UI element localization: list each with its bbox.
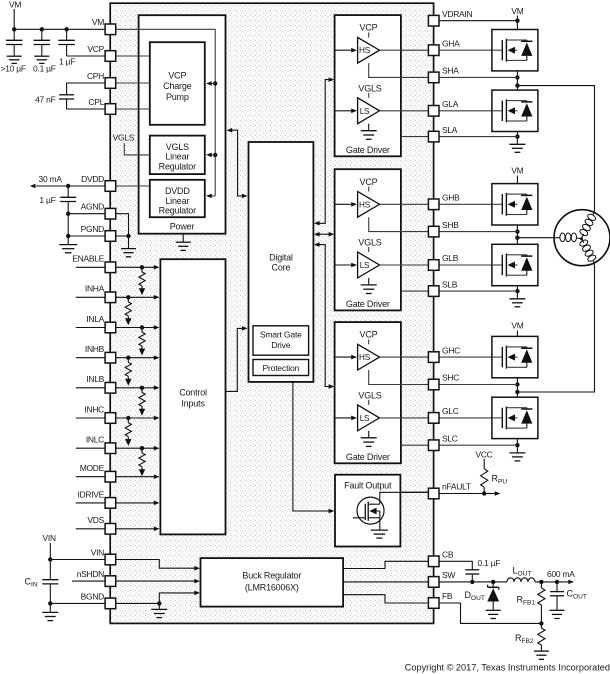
svg-text:0.1 µF: 0.1 µF — [33, 63, 56, 73]
svg-text:INHC: INHC — [84, 404, 104, 414]
svg-text:GHC: GHC — [442, 345, 460, 355]
svg-text:(LMR16006X): (LMR16006X) — [245, 582, 299, 592]
svg-text:0.1 µF: 0.1 µF — [478, 558, 501, 568]
svg-text:VM: VM — [92, 17, 104, 27]
svg-text:Control: Control — [179, 388, 207, 398]
svg-text:VIN: VIN — [91, 547, 104, 557]
svg-text:VCP: VCP — [168, 70, 186, 80]
svg-text:ENABLE: ENABLE — [72, 254, 104, 264]
svg-text:VCP: VCP — [360, 177, 378, 187]
svg-text:INLA: INLA — [86, 314, 104, 324]
svg-text:HS: HS — [359, 46, 371, 55]
svg-text:Inputs: Inputs — [181, 398, 205, 408]
svg-text:Charge: Charge — [163, 81, 192, 91]
svg-text:VGLS: VGLS — [166, 142, 189, 152]
svg-text:IDRIVE: IDRIVE — [77, 489, 104, 499]
svg-text:Linear: Linear — [165, 196, 189, 206]
svg-text:Gate Driver: Gate Driver — [346, 145, 390, 155]
svg-text:Digital: Digital — [269, 252, 293, 262]
svg-text:VGLS: VGLS — [358, 390, 381, 400]
svg-text:Linear: Linear — [165, 152, 189, 162]
svg-text:PGND: PGND — [81, 224, 105, 234]
svg-text:600 mA: 600 mA — [547, 569, 575, 579]
svg-text:HS: HS — [359, 353, 371, 362]
svg-text:Fault Output: Fault Output — [344, 481, 392, 491]
svg-text:CPL: CPL — [88, 97, 104, 107]
svg-text:VDRAIN: VDRAIN — [442, 9, 472, 19]
svg-text:VCP: VCP — [360, 330, 378, 340]
svg-text:VM: VM — [511, 166, 523, 176]
svg-text:Power: Power — [170, 222, 195, 232]
svg-text:1 µF: 1 µF — [39, 195, 55, 205]
svg-text:Regulator: Regulator — [159, 206, 196, 216]
svg-text:VCP: VCP — [87, 44, 104, 54]
svg-text:Gate Driver: Gate Driver — [346, 299, 390, 309]
svg-text:Gate Driver: Gate Driver — [346, 452, 390, 462]
svg-text:Pump: Pump — [166, 92, 189, 102]
svg-text:Buck Regulator: Buck Regulator — [242, 571, 301, 581]
svg-text:SHB: SHB — [442, 220, 459, 230]
svg-text:CPH: CPH — [87, 71, 104, 81]
svg-text:47 nF: 47 nF — [35, 94, 56, 104]
svg-text:Smart Gate: Smart Gate — [260, 329, 302, 339]
svg-text:VM: VM — [9, 0, 21, 10]
svg-text:VGLS: VGLS — [358, 83, 381, 93]
svg-text:>10 µF: >10 µF — [1, 63, 26, 73]
svg-text:CB: CB — [442, 550, 454, 560]
svg-text:GLB: GLB — [442, 253, 459, 263]
svg-text:GLC: GLC — [442, 406, 459, 416]
svg-text:VM: VM — [511, 321, 523, 331]
svg-text:1 µF: 1 µF — [59, 57, 75, 67]
svg-text:AGND: AGND — [81, 202, 105, 212]
svg-text:VGLS: VGLS — [358, 237, 381, 247]
svg-text:VCP: VCP — [360, 23, 378, 33]
svg-text:BGND: BGND — [81, 591, 105, 601]
svg-text:INHA: INHA — [85, 284, 105, 294]
svg-text:SHA: SHA — [442, 66, 459, 76]
svg-text:GHA: GHA — [442, 38, 460, 48]
svg-text:SLA: SLA — [442, 125, 458, 135]
svg-text:SLB: SLB — [442, 279, 458, 289]
svg-text:INLB: INLB — [86, 374, 104, 384]
svg-text:INHB: INHB — [85, 344, 105, 354]
svg-text:nFAULT: nFAULT — [442, 482, 471, 492]
svg-text:Drive: Drive — [271, 340, 290, 350]
svg-text:VGLS: VGLS — [113, 133, 135, 143]
svg-text:HS: HS — [359, 200, 371, 209]
svg-text:Regulator: Regulator — [159, 161, 196, 171]
svg-text:Protection: Protection — [262, 363, 299, 373]
svg-text:30 mA: 30 mA — [39, 174, 63, 184]
svg-text:Copyright © 2017, Texas Instru: Copyright © 2017, Texas Instruments Inco… — [405, 662, 610, 672]
svg-text:MODE: MODE — [80, 463, 105, 473]
svg-text:Core: Core — [272, 263, 291, 273]
svg-text:FB: FB — [442, 591, 453, 601]
svg-text:LS: LS — [360, 107, 370, 116]
svg-text:VDS: VDS — [87, 515, 104, 525]
svg-text:SHC: SHC — [442, 373, 459, 383]
svg-text:INLC: INLC — [86, 435, 104, 445]
svg-text:VIN: VIN — [43, 533, 57, 543]
svg-text:LS: LS — [360, 261, 370, 270]
svg-text:SLC: SLC — [442, 433, 458, 443]
svg-text:nSHDN: nSHDN — [77, 569, 104, 579]
svg-text:VCC: VCC — [475, 450, 492, 460]
svg-text:DVDD: DVDD — [81, 174, 104, 184]
svg-text:DVDD: DVDD — [165, 186, 190, 196]
svg-text:GHB: GHB — [442, 193, 460, 203]
svg-text:LS: LS — [360, 414, 370, 423]
svg-text:GLA: GLA — [442, 99, 459, 109]
svg-text:SW: SW — [442, 570, 455, 580]
svg-text:VM: VM — [511, 6, 523, 16]
